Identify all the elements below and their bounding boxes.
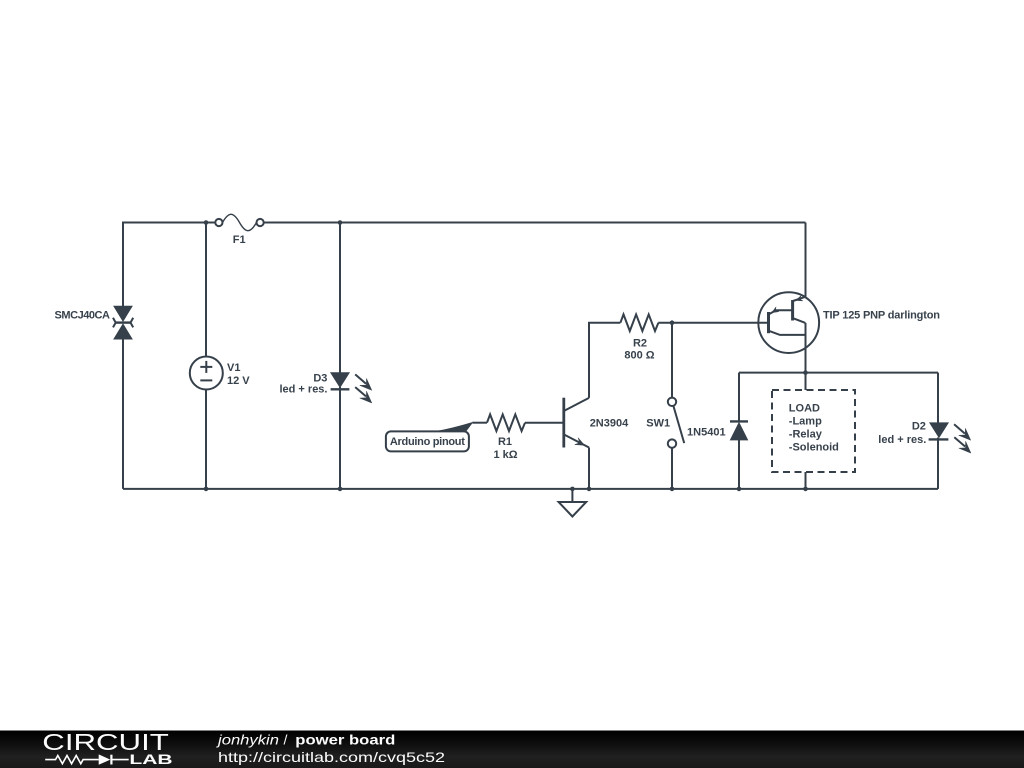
wire D2 upper [937, 373, 939, 423]
svg-text:LAB: LAB [129, 751, 172, 767]
transistor U1 TIP125 PNP darlington [758, 292, 819, 353]
svg-text:power board: power board [295, 731, 395, 747]
wire D2 lower [937, 438, 939, 489]
net flag Arduino pinout [386, 422, 474, 452]
logo resistor-diode glyph [45, 754, 129, 764]
svg-text:-Lamp: -Lamp [789, 415, 822, 427]
voltage source V1 [190, 357, 223, 390]
wire TIP emitter pin [805, 223, 807, 297]
svg-text:R2: R2 [633, 337, 647, 349]
LED D3 [331, 373, 372, 403]
LOAD dashed box [772, 390, 855, 472]
svg-text:12 V: 12 V [227, 375, 250, 387]
svg-text:led + res.: led + res. [279, 384, 327, 396]
footer bar [0, 731, 1024, 768]
wire LOAD to bottom rail [805, 472, 807, 489]
wire top-left segment [123, 223, 216, 307]
svg-text:-Solenoid: -Solenoid [789, 441, 839, 453]
LED D2 [929, 423, 971, 453]
svg-text:LOAD: LOAD [789, 402, 820, 414]
wire SW1 riser [671, 323, 673, 398]
svg-text:D2: D2 [912, 421, 926, 433]
svg-text:1N5401: 1N5401 [687, 427, 726, 439]
svg-text:1 kΩ: 1 kΩ [493, 449, 517, 461]
wire R1 to Q1 base [525, 422, 563, 424]
svg-text:V1: V1 [227, 362, 240, 374]
svg-text:-Relay: -Relay [789, 428, 823, 440]
transistor Q1 2N3904 [564, 398, 589, 448]
wire top main segment [264, 222, 806, 224]
resistor R2 [620, 314, 658, 331]
wire 2N3904 collector riser [589, 323, 620, 398]
diode 1N5401 [730, 421, 748, 440]
wire V1 branch lower [205, 389, 207, 489]
wire SW1 drop [671, 448, 673, 489]
fuse F1 [215, 214, 263, 230]
wire 2N3904 emitter drop [588, 448, 590, 489]
wire 1N5401 upper [738, 373, 740, 422]
junction node dots [204, 220, 808, 491]
wire left vertical below TVS [122, 339, 124, 489]
wire 1N5401 lower [738, 440, 740, 489]
svg-text:jonhykin: jonhykin [216, 731, 280, 747]
svg-text:SMCJ40CA: SMCJ40CA [55, 310, 111, 322]
wire TIP collector pin to LOAD [805, 323, 807, 390]
TVS diode SMCJ40CA [113, 306, 133, 339]
wire mid rail [739, 372, 938, 374]
svg-text:led + res.: led + res. [878, 434, 926, 446]
switch SW1 [668, 398, 684, 448]
wire D3 branch [339, 223, 341, 373]
svg-text:F1: F1 [233, 234, 246, 246]
svg-text:800 Ω: 800 Ω [624, 350, 654, 362]
svg-text:TIP 125 PNP darlington: TIP 125 PNP darlington [823, 309, 940, 321]
svg-text:/: / [284, 731, 288, 747]
svg-text:R1: R1 [498, 436, 512, 448]
wire D3 branch lower [339, 387, 341, 489]
wire bottom rail [123, 488, 938, 490]
svg-text:2N3904: 2N3904 [590, 418, 629, 430]
svg-text:http://circuitlab.com/cvq5c52: http://circuitlab.com/cvq5c52 [218, 749, 445, 765]
svg-text:Arduino pinout: Arduino pinout [390, 436, 465, 448]
ground [559, 489, 587, 517]
svg-text:D3: D3 [313, 373, 327, 385]
wire R2 to TIP base [658, 322, 767, 324]
wire flag to R1 [473, 422, 488, 424]
resistor R1 [487, 414, 525, 431]
wire V1 branch upper [205, 223, 207, 357]
svg-text:SW1: SW1 [646, 418, 670, 430]
